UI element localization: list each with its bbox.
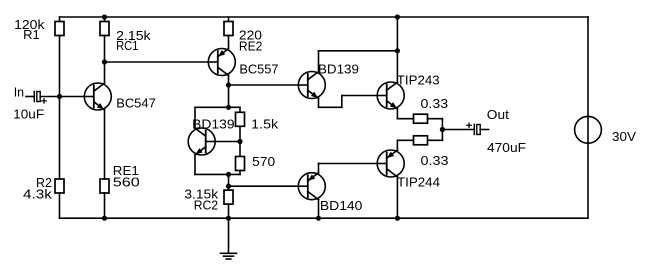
wire bbox=[428, 139, 443, 141]
svg-text:RC2: RC2 bbox=[194, 197, 218, 212]
transistor Q7 BD140 bbox=[298, 173, 325, 200]
value label 0.33 bbox=[421, 96, 449, 111]
value label 1.5k bbox=[251, 117, 279, 132]
capacitor C2 470uF bbox=[474, 125, 480, 135]
node emitter-rail junction bbox=[102, 216, 107, 221]
svg-text:TIP244: TIP244 bbox=[397, 175, 440, 190]
wire bbox=[428, 118, 443, 120]
wire bbox=[441, 119, 443, 130]
resistor R2 bbox=[55, 179, 64, 193]
node TIP243 collector bbox=[395, 48, 400, 53]
label BC547 bbox=[116, 95, 156, 110]
node input junction bbox=[57, 94, 62, 99]
node rail junction bbox=[102, 14, 107, 19]
wire bbox=[104, 193, 106, 218]
wire bbox=[319, 106, 342, 108]
node BC557 collector bbox=[226, 82, 231, 87]
wire bbox=[228, 174, 230, 186]
resistor R 0.33 lower bbox=[414, 136, 428, 145]
node bias divider bbox=[237, 139, 242, 144]
wire bbox=[341, 96, 343, 108]
resistor R 0.33 upper bbox=[414, 114, 428, 123]
wire bbox=[229, 185, 299, 187]
resistor RE2 bbox=[224, 17, 233, 36]
voltage source V1 30V bbox=[575, 116, 602, 143]
svg-text:Out: Out bbox=[487, 107, 509, 122]
resistor R 1.5k bbox=[236, 107, 245, 126]
wire bbox=[59, 36, 61, 97]
node bias top bbox=[226, 105, 231, 110]
wire bbox=[239, 126, 241, 141]
svg-text:470uF: 470uF bbox=[487, 140, 526, 155]
label RE1 bbox=[113, 163, 139, 178]
wire bbox=[229, 84, 299, 86]
value label 2.15k bbox=[116, 28, 151, 43]
wire bbox=[480, 129, 488, 131]
wire bbox=[104, 62, 106, 83]
wire bbox=[104, 110, 106, 179]
wire bbox=[105, 61, 209, 63]
svg-text:TIP243: TIP243 bbox=[397, 73, 440, 88]
label R2 bbox=[36, 175, 52, 190]
polarity plus C2 bbox=[466, 123, 472, 129]
wire bbox=[26, 96, 34, 98]
svg-text:BD139: BD139 bbox=[318, 62, 359, 77]
svg-text:570: 570 bbox=[252, 154, 275, 169]
label TIP244 bbox=[397, 175, 440, 190]
wire bbox=[319, 50, 398, 52]
node rail junction bbox=[395, 14, 400, 19]
wire bbox=[194, 155, 196, 175]
wire right rail bbox=[587, 17, 589, 218]
label R1 bbox=[23, 27, 40, 42]
wire bbox=[318, 51, 320, 72]
label RE2 bbox=[239, 39, 263, 54]
svg-text:R1: R1 bbox=[23, 27, 40, 42]
label RC1 bbox=[116, 38, 138, 53]
node In label bbox=[14, 84, 24, 99]
value label 10uF bbox=[13, 107, 44, 122]
svg-text:BC547: BC547 bbox=[116, 95, 156, 110]
svg-text:BD139: BD139 bbox=[192, 117, 235, 132]
wire bbox=[228, 75, 230, 85]
transistor Q6 TIP244 bbox=[377, 150, 404, 177]
wire bbox=[318, 98, 320, 107]
wire bbox=[228, 218, 230, 253]
wire bbox=[396, 17, 398, 82]
wire bbox=[195, 106, 240, 108]
svg-text:1.5k: 1.5k bbox=[251, 117, 279, 132]
polarity plus C1 bbox=[41, 98, 47, 104]
node Out label bbox=[487, 107, 509, 122]
value label 570 bbox=[252, 154, 275, 169]
wire bbox=[318, 164, 320, 173]
wire bottom rail bbox=[60, 217, 589, 219]
value label 560 bbox=[113, 175, 140, 190]
svg-text:0.33: 0.33 bbox=[421, 96, 449, 111]
wire top rail bbox=[60, 16, 589, 18]
wire bbox=[59, 97, 61, 180]
value label 0.33 bbox=[421, 153, 449, 168]
resistor R1 bbox=[55, 17, 64, 36]
transistor Q5 TIP243 bbox=[377, 82, 404, 109]
wire bbox=[215, 141, 240, 143]
value label 220 bbox=[239, 27, 262, 42]
wire bbox=[194, 107, 196, 128]
resistor R 570 bbox=[236, 142, 245, 171]
wire bbox=[396, 140, 398, 150]
transistor Q3 BD139 bias bbox=[188, 128, 215, 155]
wire bbox=[228, 85, 230, 107]
value label 30V bbox=[612, 129, 636, 144]
wire bbox=[397, 139, 413, 141]
svg-text:4.3k: 4.3k bbox=[23, 187, 52, 202]
label BC557 bbox=[239, 62, 278, 77]
wire bbox=[195, 173, 240, 175]
label RC2 bbox=[194, 197, 218, 212]
node bias bottom bbox=[226, 172, 231, 177]
svg-text:30V: 30V bbox=[612, 129, 636, 144]
wire bbox=[342, 95, 377, 97]
wire bbox=[228, 204, 230, 218]
label TIP243 bbox=[397, 73, 440, 88]
wire bbox=[239, 171, 241, 175]
value label 120k bbox=[14, 17, 45, 32]
label BD139 bbox=[318, 62, 359, 77]
resistor RE1 bbox=[100, 179, 109, 193]
svg-text:0.33: 0.33 bbox=[421, 153, 449, 168]
capacitor C1 10uF bbox=[34, 92, 40, 102]
transistor Q1 BC547 bbox=[84, 83, 111, 110]
wire bbox=[397, 118, 413, 120]
value label 470uF bbox=[487, 140, 526, 155]
wire bbox=[228, 36, 230, 49]
wire bbox=[442, 129, 473, 131]
svg-text:In: In bbox=[14, 84, 24, 99]
svg-text:BC557: BC557 bbox=[239, 62, 278, 77]
node BC547 collector bbox=[102, 59, 107, 64]
resistor RC1 bbox=[100, 17, 109, 36]
node rail junction bbox=[395, 216, 400, 221]
svg-text:BD140: BD140 bbox=[320, 198, 363, 213]
node rail junction bbox=[316, 216, 321, 221]
svg-text:RC1: RC1 bbox=[116, 38, 138, 53]
wire bbox=[441, 130, 443, 141]
wire bbox=[104, 36, 106, 63]
value label 4.3k bbox=[23, 187, 52, 202]
svg-text:560: 560 bbox=[113, 175, 140, 190]
label BD139 bbox=[192, 117, 235, 132]
transistor Q4 BD139 driver bbox=[298, 72, 325, 99]
value label 3.15k bbox=[184, 186, 218, 201]
node ground junction bbox=[226, 216, 231, 221]
svg-text:RE2: RE2 bbox=[239, 39, 263, 54]
wire bbox=[319, 163, 378, 165]
transistor Q2 BC557 bbox=[208, 49, 235, 76]
wire bbox=[318, 200, 320, 219]
label BD140 bbox=[320, 198, 363, 213]
wire bbox=[396, 177, 398, 218]
resistor RC2 bbox=[224, 186, 233, 204]
svg-text:10uF: 10uF bbox=[13, 107, 44, 122]
wire bbox=[40, 96, 84, 98]
wire bbox=[396, 109, 398, 119]
wire bbox=[59, 193, 61, 218]
node output junction bbox=[440, 127, 445, 132]
node BD140 base bbox=[226, 184, 231, 189]
ground bbox=[221, 253, 237, 259]
